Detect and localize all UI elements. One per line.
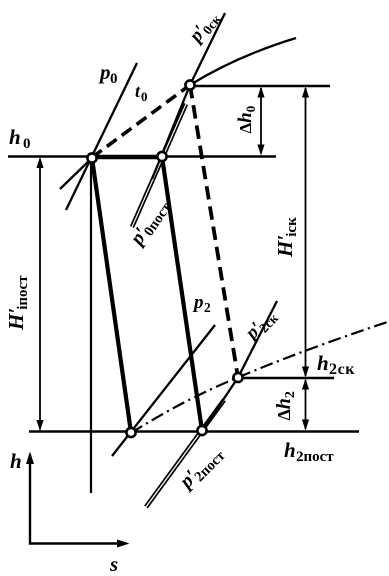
- svg-text:0: 0: [110, 71, 118, 87]
- svg-text:s: s: [109, 552, 118, 576]
- svg-text:2: 2: [204, 300, 211, 315]
- svg-text:h: h: [10, 449, 22, 473]
- svg-text:p: p: [98, 60, 111, 84]
- svg-text:p: p: [192, 292, 204, 313]
- svg-text:0: 0: [141, 89, 148, 104]
- svg-text:0: 0: [23, 136, 31, 152]
- svg-text:h: h: [284, 438, 296, 462]
- svg-text:2ск: 2ск: [329, 361, 355, 378]
- svg-text:h: h: [9, 125, 21, 149]
- svg-text:2пост: 2пост: [296, 449, 334, 465]
- svg-text:h: h: [317, 351, 329, 375]
